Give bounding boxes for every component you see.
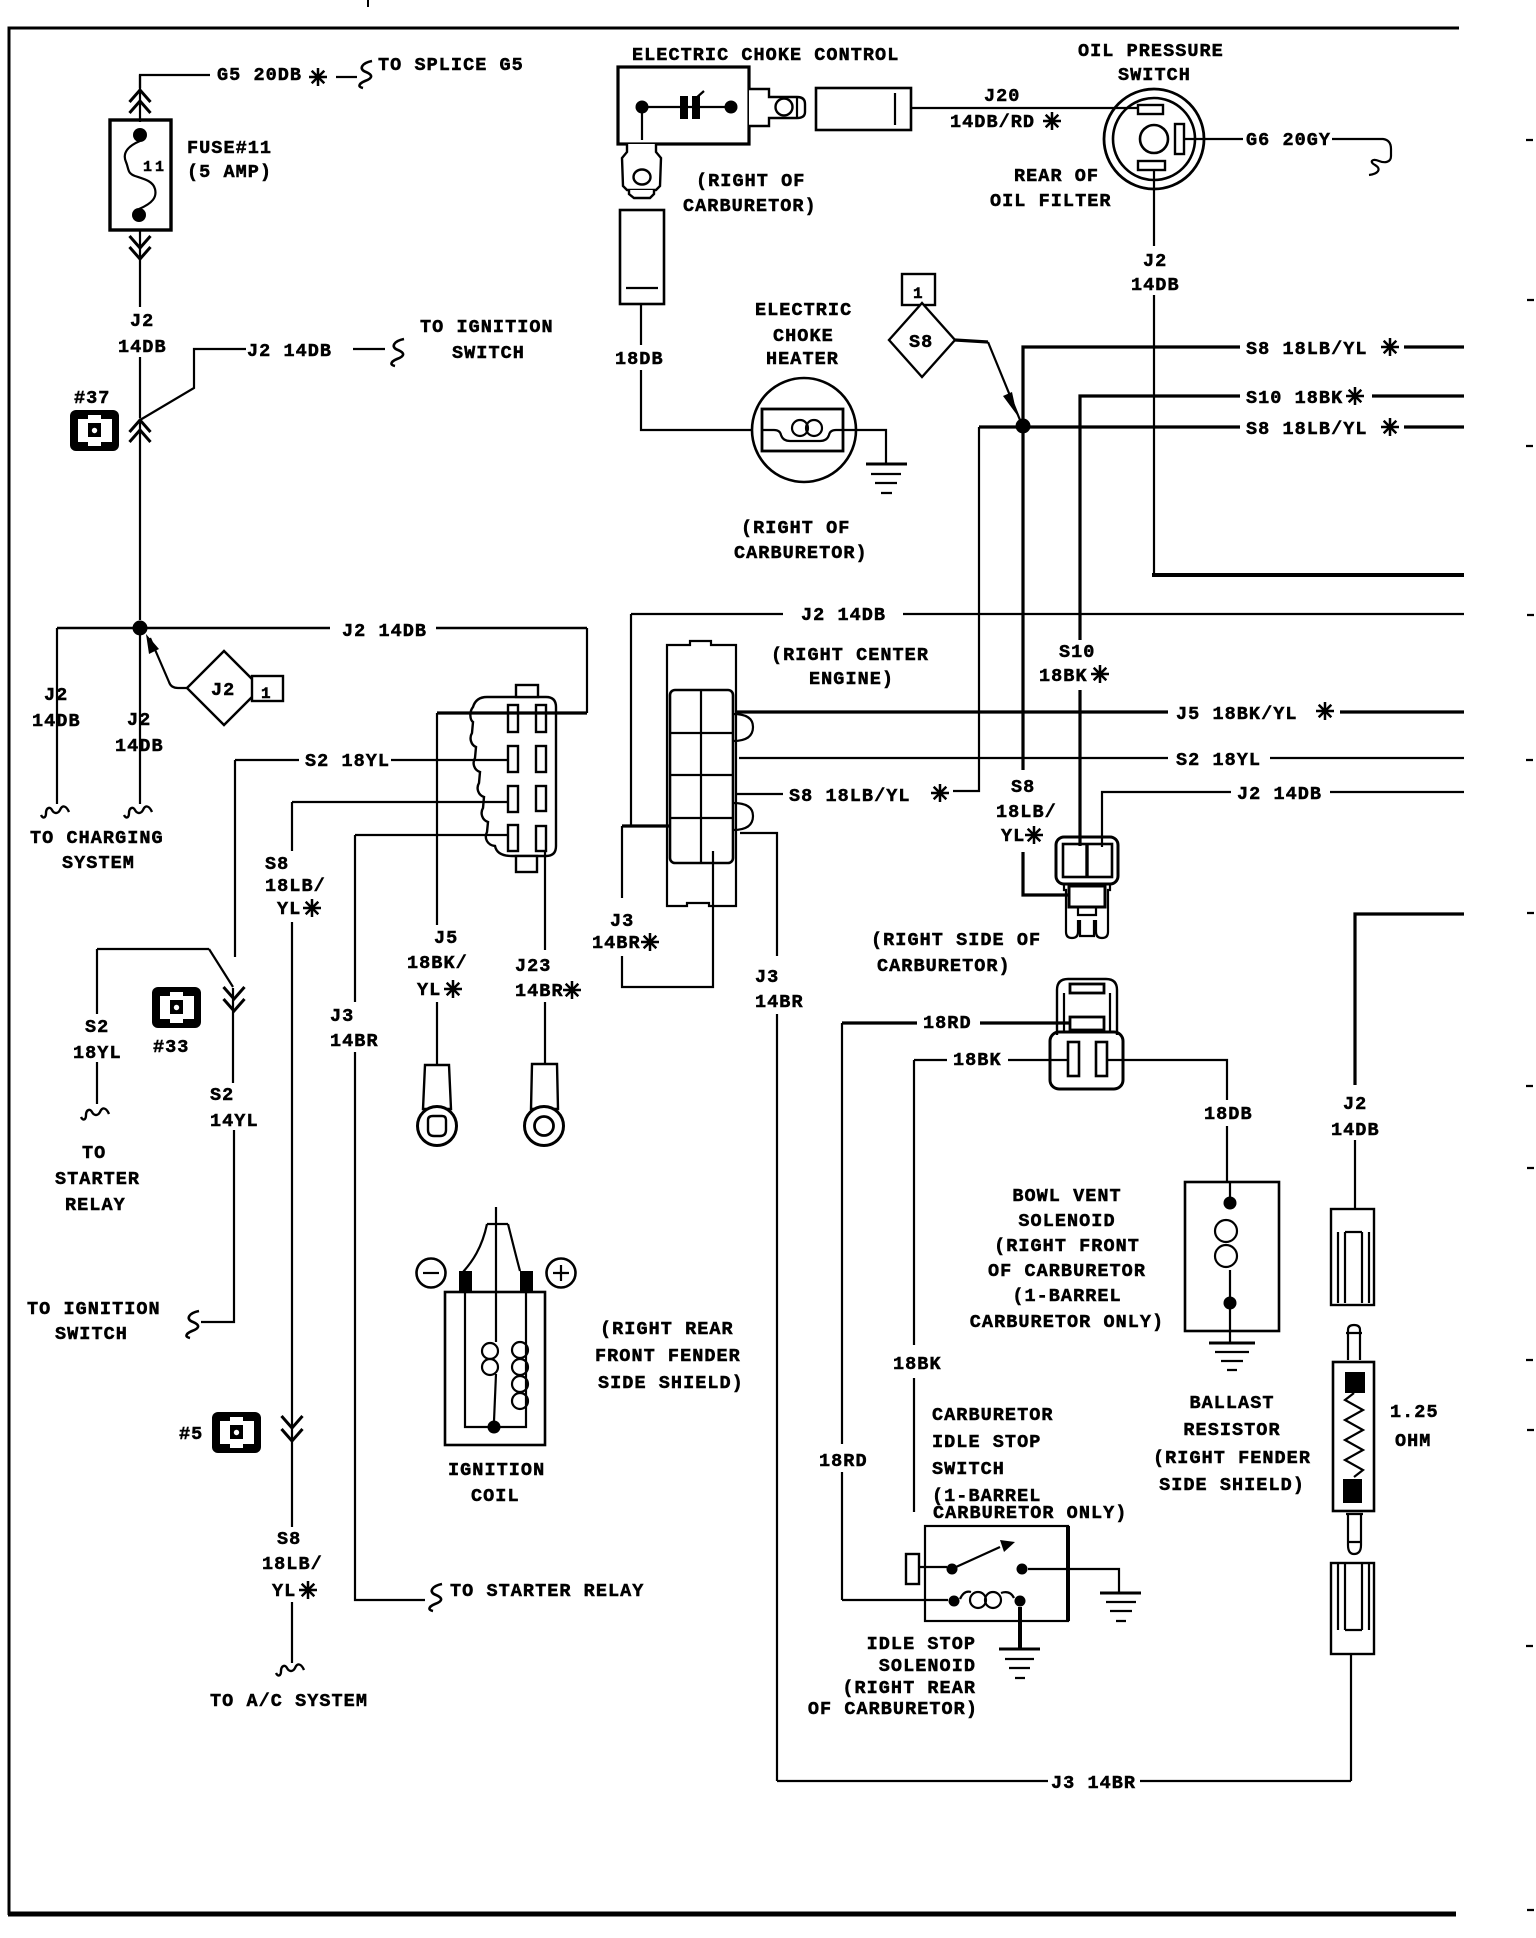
solenoid coil wire <box>1229 1182 1231 1303</box>
svg-text:18LB/: 18LB/ <box>262 1554 323 1575</box>
svg-text:18RD: 18RD <box>819 1451 868 1472</box>
wire switch to ground <box>1028 1569 1119 1592</box>
svg-text:OHM: OHM <box>1395 1431 1431 1452</box>
wire 18BK into connector <box>914 1059 1068 1061</box>
wire G5 to splice <box>140 75 357 88</box>
svg-text:OF CARBURETOR: OF CARBURETOR <box>988 1261 1146 1282</box>
svg-text:G5 20DB: G5 20DB <box>217 65 302 86</box>
node coil common <box>488 1421 501 1434</box>
svg-text:SOLENOID: SOLENOID <box>1018 1211 1115 1232</box>
svg-text:18RD: 18RD <box>923 1013 972 1034</box>
oil pressure switch body <box>1104 89 1204 189</box>
node J2 junction <box>133 621 148 636</box>
wire heater to ground <box>843 430 886 464</box>
connector C3 slots <box>1068 1042 1079 1076</box>
svg-text:S8: S8 <box>1011 777 1035 798</box>
wire J3 14BR from connector row4 <box>355 834 513 836</box>
wire S8 18LB/YL top line <box>1023 347 1464 426</box>
svg-text:TO IGNITION: TO IGNITION <box>27 1299 161 1320</box>
wire S8 18LB/YL lower line <box>979 425 1464 428</box>
svg-text:18BK: 18BK <box>1039 666 1088 687</box>
switch input tab <box>906 1554 919 1584</box>
connector C3 upper body <box>1057 979 1117 1035</box>
svg-text:(RIGHT FRONT: (RIGHT FRONT <box>994 1236 1140 1257</box>
svg-text:J2 14DB: J2 14DB <box>342 621 427 642</box>
connector C6 grid <box>670 690 733 863</box>
choke control contacts <box>642 107 731 140</box>
svg-text:18DB: 18DB <box>615 349 664 370</box>
connector C8 pins right <box>536 705 546 732</box>
svg-text:J2: J2 <box>130 311 154 332</box>
chevron pair above fuse <box>130 90 151 102</box>
svg-text:SWITCH: SWITCH <box>932 1459 1005 1480</box>
connector half upper <box>1331 1209 1374 1305</box>
svg-text:IGNITION: IGNITION <box>448 1460 545 1481</box>
wire S2 18YL line <box>739 757 1464 759</box>
svg-text:OIL FILTER: OIL FILTER <box>990 191 1112 212</box>
wire S8 trunk down <box>1023 426 1070 895</box>
svg-text:S2: S2 <box>85 1017 109 1038</box>
svg-text:S2 18YL: S2 18YL <box>305 751 390 772</box>
svg-text:CARBURETOR): CARBURETOR) <box>877 956 1011 977</box>
svg-text:HEATER: HEATER <box>766 349 839 370</box>
wire J2 14DB horizontal run <box>57 627 587 630</box>
svg-text:RELAY: RELAY <box>65 1195 126 1216</box>
svg-text:ENGINE): ENGINE) <box>809 669 894 690</box>
svg-text:SOLENOID: SOLENOID <box>879 1656 976 1677</box>
wire branch to ignition switch <box>140 349 385 420</box>
svg-text:(RIGHT REAR: (RIGHT REAR <box>600 1319 734 1340</box>
wire J3 14BR right leg <box>740 833 777 1781</box>
chevron pair on S8 wire <box>282 1416 303 1428</box>
svg-text:REAR OF: REAR OF <box>1014 166 1099 187</box>
svg-text:#37: #37 <box>74 388 110 409</box>
idle stop switch body <box>925 1526 1068 1621</box>
wire J3 14BR loop under connector <box>622 826 713 987</box>
coil inner frame <box>465 1292 526 1427</box>
connector C3 inner walls <box>1064 993 1110 1032</box>
svg-text:(RIGHT OF: (RIGHT OF <box>741 518 850 539</box>
wire S8 row3 stub <box>736 793 783 795</box>
switch top tab <box>1138 105 1163 114</box>
wire to charging system left <box>56 628 58 804</box>
svg-text:TO IGNITION: TO IGNITION <box>420 317 554 338</box>
svg-text:1.25: 1.25 <box>1390 1402 1439 1423</box>
svg-text:ELECTRIC CHOKE CONTROL: ELECTRIC CHOKE CONTROL <box>632 45 899 66</box>
fuse element <box>133 128 147 142</box>
coil terminal negative <box>459 1271 472 1292</box>
svg-text:14DB: 14DB <box>115 736 164 757</box>
wire J5 18BK/YL down to terminal <box>436 713 438 1065</box>
bowl vent solenoid body <box>1185 1182 1279 1331</box>
wire to charging system mid <box>139 635 141 804</box>
switch bottom tab <box>1138 161 1165 170</box>
wire J2 to connector <box>1354 1140 1356 1209</box>
connector C8 pins left <box>508 705 518 732</box>
svg-text:J3: J3 <box>755 967 779 988</box>
connector C8 body <box>470 697 556 856</box>
svg-text:S8: S8 <box>277 1529 301 1550</box>
switch contacts <box>947 1564 958 1575</box>
svg-text:SIDE SHIELD): SIDE SHIELD) <box>1159 1475 1305 1496</box>
wire 18RD into connector <box>842 1021 1071 1024</box>
ballast resistor body <box>1333 1362 1374 1511</box>
ballast bottom pin <box>1346 1514 1363 1554</box>
svg-text:18LB/: 18LB/ <box>265 876 326 897</box>
connector C2 neck <box>1064 884 1110 908</box>
chevron pair S2 14YL <box>224 987 245 999</box>
ring terminal J23 <box>531 1064 558 1109</box>
arrow hook mid <box>124 806 152 817</box>
svg-text:(5 AMP): (5 AMP) <box>187 162 272 183</box>
wire 18RD down <box>841 1023 843 1600</box>
connector half lower <box>1331 1563 1374 1654</box>
svg-text:14DB: 14DB <box>32 711 81 732</box>
wire 18RD to solenoid <box>842 1599 948 1601</box>
svg-text:14BR: 14BR <box>592 933 641 954</box>
svg-text:CARBURETOR: CARBURETOR <box>932 1405 1054 1426</box>
box 1 at diamond J2 <box>252 676 283 701</box>
wire solenoid to ground <box>1018 1607 1022 1648</box>
wire S2 18YL left leg <box>96 949 98 1104</box>
heater coil <box>762 430 843 441</box>
connector C6 right bump upper <box>733 714 753 741</box>
svg-text:J3 14BR: J3 14BR <box>1051 1773 1136 1794</box>
ignition coil tower <box>463 1224 520 1272</box>
svg-text:TO CHARGING: TO CHARGING <box>30 828 164 849</box>
svg-text:J2: J2 <box>44 685 68 706</box>
coil primary winding <box>482 1343 498 1359</box>
ground symbol bowl vent <box>1209 1342 1255 1345</box>
svg-text:S8 18LB/YL: S8 18LB/YL <box>1246 419 1368 440</box>
svg-text:TO STARTER RELAY: TO STARTER RELAY <box>450 1581 644 1602</box>
svg-text:S2: S2 <box>210 1085 234 1106</box>
svg-text:1: 1 <box>261 685 272 703</box>
svg-text:FRONT FENDER: FRONT FENDER <box>595 1346 741 1367</box>
svg-text:18BK/: 18BK/ <box>407 953 468 974</box>
svg-text:OIL PRESSURE: OIL PRESSURE <box>1078 41 1224 62</box>
ballast terminal top <box>1345 1372 1365 1393</box>
svg-text:S8: S8 <box>909 332 933 353</box>
connector C2 body <box>1056 837 1118 884</box>
ground symbol switch <box>1100 1592 1141 1595</box>
svg-text:14DB: 14DB <box>118 337 167 358</box>
arrow hook to starter relay <box>81 1108 109 1119</box>
connector C8 top tab <box>516 685 538 697</box>
coil center wire <box>495 1207 497 1342</box>
svg-text:J5: J5 <box>434 928 458 949</box>
svg-text:BALLAST: BALLAST <box>1189 1393 1274 1414</box>
wire J2 14DB right corner <box>1355 914 1464 1085</box>
svg-text:14DB/RD: 14DB/RD <box>950 112 1035 133</box>
svg-text:IDLE STOP: IDLE STOP <box>932 1432 1041 1453</box>
wire 18DB down <box>641 304 752 430</box>
svg-text:14YL: 14YL <box>210 1111 259 1132</box>
svg-text:ELECTRIC: ELECTRIC <box>755 300 852 321</box>
solenoid contacts <box>949 1596 960 1607</box>
svg-text:(RIGHT OF: (RIGHT OF <box>696 171 805 192</box>
svg-text:J20: J20 <box>984 86 1020 107</box>
ballast element zigzag <box>1345 1393 1363 1477</box>
svg-text:#5: #5 <box>179 1424 203 1445</box>
svg-text:G6 20GY: G6 20GY <box>1246 130 1331 151</box>
arrow hook G6 <box>1369 156 1391 175</box>
svg-text:(1-BARREL: (1-BARREL <box>1012 1286 1121 1307</box>
svg-text:TO: TO <box>82 1143 106 1164</box>
arrow hook left <box>41 806 69 817</box>
svg-text:YL: YL <box>277 899 301 920</box>
wire J5 18BK/YL line <box>736 710 1464 713</box>
svg-text:SIDE SHIELD): SIDE SHIELD) <box>598 1373 744 1394</box>
svg-text:TO A/C SYSTEM: TO A/C SYSTEM <box>210 1691 368 1712</box>
svg-text:S2 18YL: S2 18YL <box>1176 750 1261 771</box>
svg-text:S10: S10 <box>1059 642 1095 663</box>
ground symbol solenoid <box>999 1648 1040 1651</box>
connector #33 <box>152 987 201 1028</box>
svg-text:J23: J23 <box>515 956 551 977</box>
wire J2 14DB thick run right <box>1152 573 1464 577</box>
node S8 junction <box>1016 419 1031 434</box>
arrow to splice G5 <box>359 61 372 88</box>
svg-text:18LB/: 18LB/ <box>996 802 1057 823</box>
svg-text:SWITCH: SWITCH <box>55 1324 128 1345</box>
svg-text:OF CARBURETOR): OF CARBURETOR) <box>808 1699 978 1720</box>
svg-text:(RIGHT FENDER: (RIGHT FENDER <box>1153 1448 1311 1469</box>
svg-text:YL: YL <box>417 980 441 1001</box>
wire 18DB from connector <box>1107 1060 1227 1182</box>
arrow to starter relay <box>429 1584 442 1611</box>
ballast top pin <box>1346 1325 1362 1360</box>
svg-text:(RIGHT CENTER: (RIGHT CENTER <box>771 645 929 666</box>
wire J2 into connector row4 <box>630 614 632 826</box>
wire S10 18BK line <box>1080 396 1464 640</box>
svg-text:J3: J3 <box>330 1006 354 1027</box>
svg-text:CARBURETOR): CARBURETOR) <box>683 196 817 217</box>
wire J2 down to junction <box>139 420 141 620</box>
connector C2 cavities <box>1063 844 1112 877</box>
connector C6 outer shell <box>667 641 736 906</box>
svg-text:J2: J2 <box>127 710 151 731</box>
svg-text:CHOKE: CHOKE <box>773 326 834 347</box>
switch blade arrow <box>956 1547 1000 1567</box>
svg-text:J5 18BK/YL: J5 18BK/YL <box>1176 704 1298 725</box>
svg-text:(RIGHT SIDE OF: (RIGHT SIDE OF <box>871 930 1041 951</box>
svg-text:STARTER: STARTER <box>55 1169 140 1190</box>
wire S8 18LB/YL branch <box>292 801 513 803</box>
wire J23 14BR down to terminal <box>544 851 546 1064</box>
wire 18BK down <box>913 1060 915 1512</box>
svg-text:SWITCH: SWITCH <box>452 343 525 364</box>
wire below fuse <box>139 230 141 418</box>
ring terminal J5 <box>423 1065 451 1109</box>
connector C6 inner body <box>670 690 733 863</box>
svg-text:S8: S8 <box>265 854 289 875</box>
wire J2 14DB thin line <box>631 613 1464 615</box>
svg-text:14BR: 14BR <box>755 992 804 1013</box>
ballast terminal bottom <box>1343 1479 1362 1503</box>
svg-text:IDLE STOP: IDLE STOP <box>867 1634 976 1655</box>
wire J2 14DB to connector <box>1102 792 1464 847</box>
arrow to ignition switch <box>186 1311 199 1338</box>
svg-text:CARBURETOR): CARBURETOR) <box>734 543 868 564</box>
choke control body <box>618 67 749 144</box>
svg-text:18BK: 18BK <box>953 1050 1002 1071</box>
connector C3 socket rect <box>1070 1017 1104 1030</box>
svg-text:#33: #33 <box>153 1037 189 1058</box>
svg-text:YL: YL <box>1001 826 1025 847</box>
wire S2 14YL down <box>201 988 234 1322</box>
chevron pair at #37 <box>130 420 151 432</box>
choke control spade terminal <box>622 144 661 190</box>
svg-text:YL: YL <box>272 1581 296 1602</box>
wire J3 14BR bottom run <box>777 1780 1351 1782</box>
svg-text:J2 14DB: J2 14DB <box>1237 784 1322 805</box>
svg-text:SWITCH: SWITCH <box>1118 65 1191 86</box>
svg-text:J2: J2 <box>211 680 235 701</box>
choke control right plug <box>749 89 805 126</box>
heater tube body <box>620 210 664 304</box>
wire J20 14DB/RD <box>911 107 1138 109</box>
svg-text:RESISTOR: RESISTOR <box>1183 1420 1280 1441</box>
wire S8 to A/C <box>291 1413 293 1663</box>
wire J2 14DB from oil switch <box>1153 170 1155 573</box>
symbol minus <box>417 1259 446 1288</box>
svg-text:18YL: 18YL <box>73 1043 122 1064</box>
coil secondary winding <box>512 1342 528 1358</box>
arrow hook to A/C system <box>276 1664 304 1675</box>
wire S10 down to connector <box>1078 690 1081 846</box>
svg-text:18DB: 18DB <box>1204 1104 1253 1125</box>
svg-text:14BR: 14BR <box>330 1031 379 1052</box>
svg-text:14BR: 14BR <box>515 981 564 1002</box>
svg-text:J2 14DB: J2 14DB <box>247 341 332 362</box>
fuse F11 body <box>110 120 171 230</box>
svg-text:J3: J3 <box>610 911 634 932</box>
connector C2 prongs <box>1066 908 1108 938</box>
svg-text:11: 11 <box>143 159 167 176</box>
connector #5 <box>212 1412 261 1453</box>
svg-text:J2 14DB: J2 14DB <box>801 605 886 626</box>
connector C3 top tab <box>1070 984 1104 993</box>
arrow to ignition switch <box>391 339 404 366</box>
connector C8 bottom tab <box>516 856 537 872</box>
svg-text:BOWL VENT: BOWL VENT <box>1012 1186 1121 1207</box>
ground symbol heater <box>866 463 907 466</box>
wire J2 drop to row1 <box>586 628 588 713</box>
wire solenoid to ground <box>1229 1303 1231 1343</box>
coil terminal positive <box>520 1271 533 1292</box>
wire to J3 line <box>1350 1654 1352 1781</box>
wire J5/J2 through row1 <box>437 711 587 714</box>
svg-text:S8 18LB/YL: S8 18LB/YL <box>789 786 911 807</box>
svg-text:FUSE#11: FUSE#11 <box>187 138 272 159</box>
svg-text:14DB: 14DB <box>1331 1120 1380 1141</box>
wire S8 riser to connector row3 <box>953 427 979 791</box>
splice diamond S8 <box>889 303 955 377</box>
wire from diamond to junction <box>955 340 988 342</box>
solenoid coil <box>960 1592 971 1599</box>
wire G6 20GY <box>1184 139 1391 156</box>
svg-text:J2: J2 <box>1143 251 1167 272</box>
wire S2 18YL from connector <box>235 759 513 761</box>
wire S2 down <box>234 760 236 957</box>
connector C6 right bump lower <box>733 803 753 830</box>
wire into fuse <box>139 75 141 122</box>
ignition coil body <box>445 1292 545 1445</box>
svg-text:CARBURETOR ONLY): CARBURETOR ONLY) <box>933 1503 1127 1524</box>
svg-text:18BK: 18BK <box>893 1354 942 1375</box>
choke relay body <box>816 88 911 130</box>
svg-text:CARBURETOR ONLY): CARBURETOR ONLY) <box>970 1312 1164 1333</box>
svg-text:SYSTEM: SYSTEM <box>62 853 135 874</box>
svg-text:COIL: COIL <box>471 1486 520 1507</box>
svg-text:J2: J2 <box>1343 1094 1367 1115</box>
wire S2 branch left <box>97 949 233 987</box>
chevron pair below fuse <box>130 236 151 248</box>
splice diamond J2 <box>187 651 261 725</box>
symbol plus <box>547 1259 576 1288</box>
connector C3 lower body <box>1050 1032 1123 1089</box>
svg-text:TO SPLICE G5: TO SPLICE G5 <box>378 55 524 76</box>
svg-text:1: 1 <box>913 285 924 303</box>
svg-text:(RIGHT REAR: (RIGHT REAR <box>842 1678 976 1699</box>
svg-text:14DB: 14DB <box>1131 275 1180 296</box>
svg-text:S8 18LB/YL: S8 18LB/YL <box>1246 339 1368 360</box>
svg-text:S10 18BK: S10 18BK <box>1246 388 1343 409</box>
connector #37 <box>70 410 119 451</box>
switch right tab <box>1175 124 1184 154</box>
wire arrow to diamond J2 <box>150 638 187 688</box>
electric choke heater circle <box>752 378 856 482</box>
heater inner element box <box>762 409 843 451</box>
box 1 at diamond S8 <box>902 274 935 305</box>
